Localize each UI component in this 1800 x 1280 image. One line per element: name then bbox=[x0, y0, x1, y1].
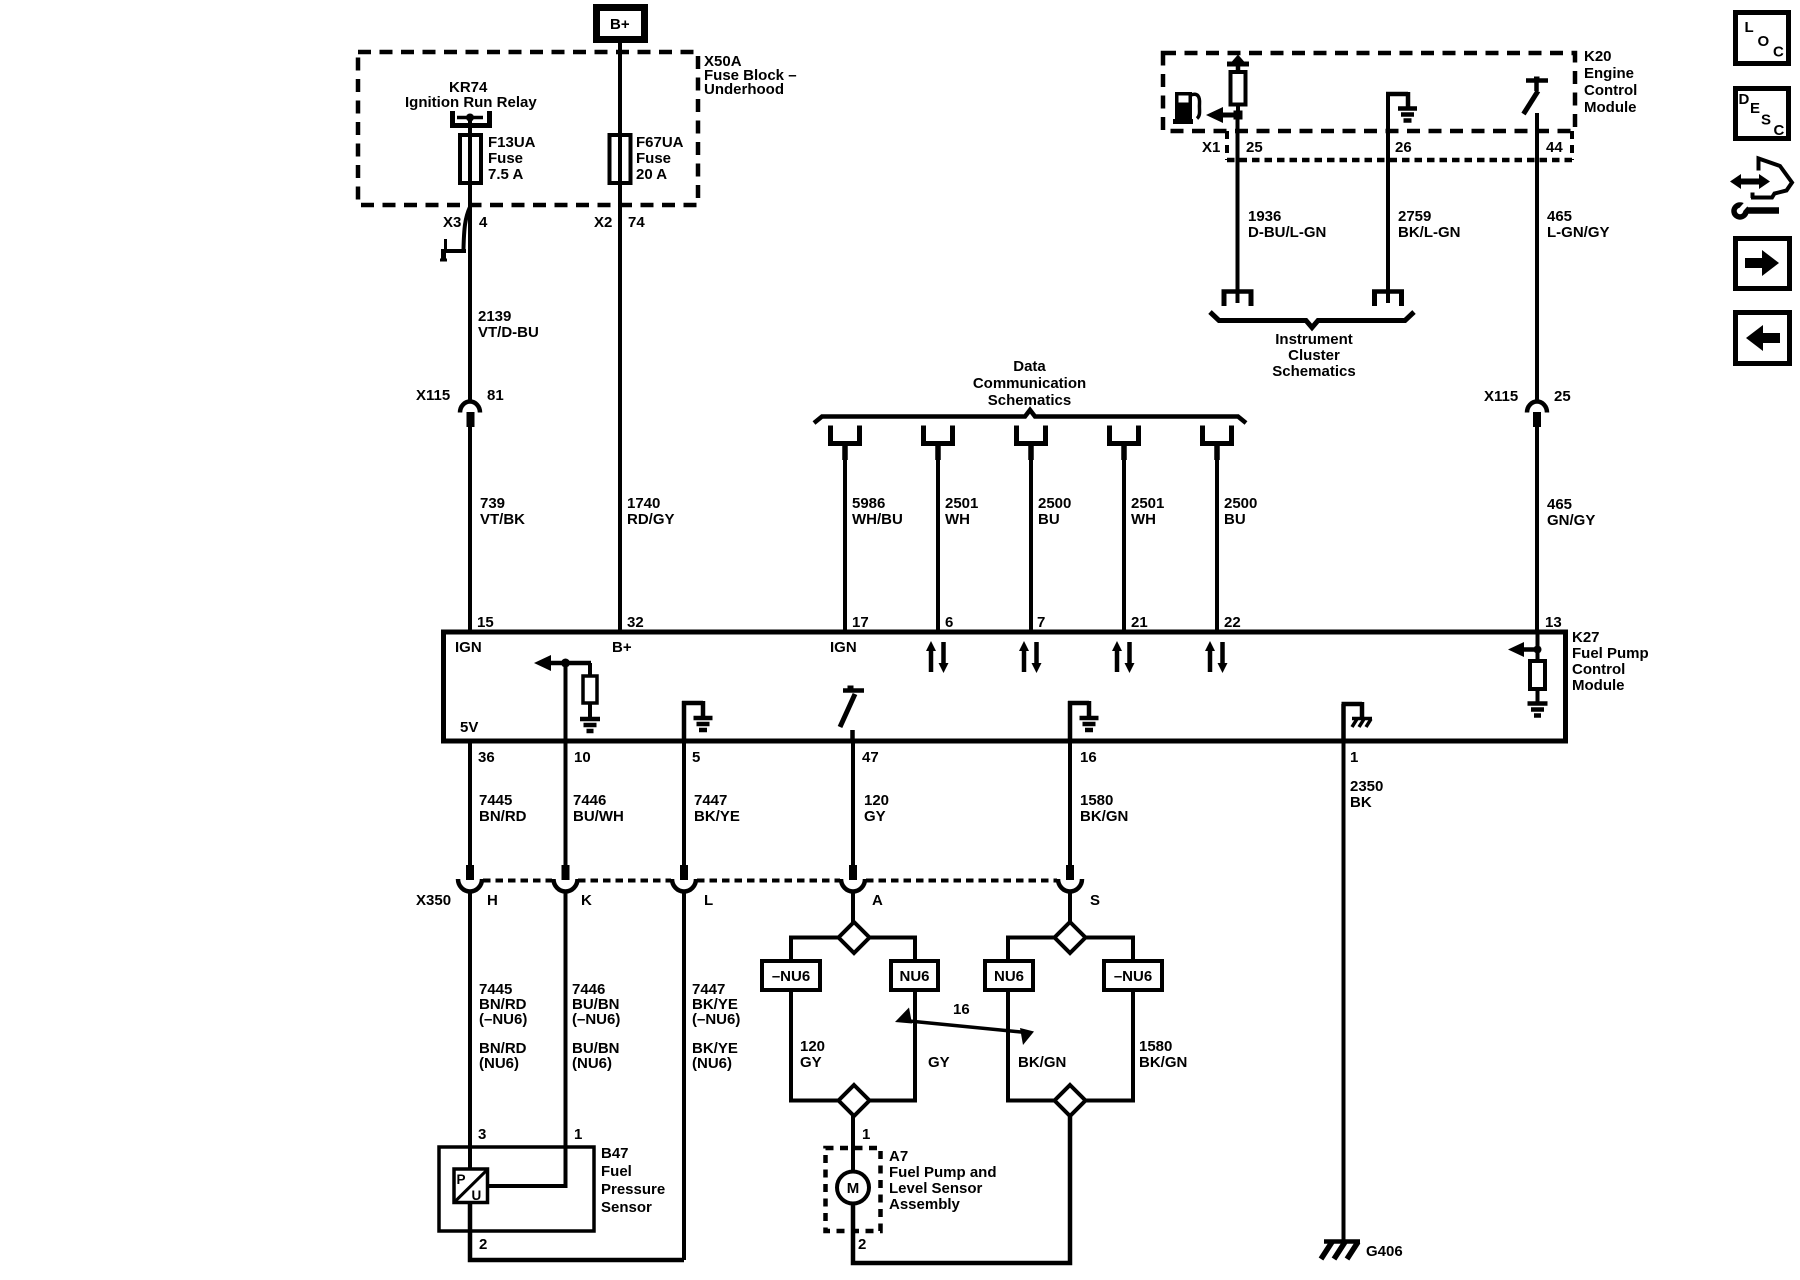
svg-text:(NU6): (NU6) bbox=[692, 1055, 732, 1072]
terminal data wire pin 17 bbox=[831, 426, 860, 461]
fuse F13UA 7.5A bbox=[460, 134, 536, 183]
svg-text:F67UA: F67UA bbox=[636, 134, 684, 151]
svg-text:(NU6): (NU6) bbox=[572, 1055, 612, 1072]
svg-text:Instrument: Instrument bbox=[1275, 331, 1353, 348]
svg-text:Data: Data bbox=[1013, 358, 1046, 375]
svg-text:L: L bbox=[1745, 19, 1754, 36]
svg-text:Module: Module bbox=[1584, 99, 1637, 116]
svg-text:S: S bbox=[1090, 892, 1100, 909]
svg-text:Cluster: Cluster bbox=[1288, 347, 1340, 364]
circuit 16 pointer arrow bbox=[895, 1001, 1034, 1045]
relay KR74 Ignition Run Relay bbox=[405, 79, 537, 135]
pin 2 label B47 bbox=[479, 1236, 487, 1253]
svg-text:2759: 2759 bbox=[1398, 208, 1431, 225]
svg-text:BK/L-GN: BK/L-GN bbox=[1398, 224, 1461, 241]
svg-text:GY: GY bbox=[928, 1054, 950, 1071]
svg-text:5986: 5986 bbox=[852, 495, 885, 512]
terminal data wire pin 21 bbox=[1110, 426, 1139, 461]
svg-text:X115: X115 bbox=[416, 387, 450, 404]
svg-text:L: L bbox=[704, 892, 713, 909]
svg-text:Underhood: Underhood bbox=[704, 81, 784, 98]
connector X350 dashed line bbox=[416, 881, 1057, 910]
brace data communication bbox=[814, 410, 1246, 423]
label K27 Fuel Pump Control Module bbox=[1572, 629, 1649, 694]
svg-text:Fuse: Fuse bbox=[636, 150, 671, 167]
splice diamond bottom group 1 bbox=[839, 1085, 870, 1116]
switch in K20 pin 44 bbox=[1524, 77, 1549, 115]
battery terminal B+ bbox=[597, 8, 645, 40]
pin numbers on K27 top bbox=[477, 614, 1562, 631]
svg-text:465: 465 bbox=[1547, 496, 1572, 513]
svg-text:WH: WH bbox=[1131, 511, 1156, 528]
terminal to instrument cluster pin 26 bbox=[1372, 290, 1404, 307]
svg-text:D-BU/L-GN: D-BU/L-GN bbox=[1248, 224, 1326, 241]
branch wires group 1 bbox=[791, 938, 915, 1101]
wire 1740 RD/GY bbox=[620, 207, 675, 632]
net label B+ pin 32 bbox=[612, 639, 632, 656]
svg-text:–NU6: –NU6 bbox=[1114, 968, 1152, 985]
svg-text:IGN: IGN bbox=[830, 639, 857, 656]
svg-text:7.5 A: 7.5 A bbox=[488, 166, 523, 183]
svg-text:2500: 2500 bbox=[1224, 495, 1257, 512]
module K27 Fuel Pump Control Module box bbox=[444, 632, 1566, 741]
wire 2759 BK/L-GN pin 26 bbox=[1388, 160, 1461, 303]
svg-text:Sensor: Sensor bbox=[601, 1199, 652, 1216]
svg-text:2: 2 bbox=[858, 1236, 866, 1253]
pin numbers on K27 bottom bbox=[478, 749, 1358, 766]
brace instrument cluster bbox=[1210, 312, 1414, 328]
wire 2500 BU bbox=[1031, 452, 1071, 632]
label 120 GY left branch bbox=[800, 1038, 825, 1071]
svg-text:1936: 1936 bbox=[1248, 208, 1281, 225]
svg-text:13: 13 bbox=[1545, 614, 1562, 631]
wire 7446 BU/WH to X350 bbox=[566, 741, 624, 866]
label B47 Fuel Pressure Sensor bbox=[601, 1145, 665, 1216]
svg-text:7: 7 bbox=[1037, 614, 1045, 631]
svg-text:VT/D-BU: VT/D-BU bbox=[478, 324, 539, 341]
svg-text:5: 5 bbox=[692, 749, 700, 766]
svg-text:GY: GY bbox=[864, 808, 886, 825]
svg-text:WH/BU: WH/BU bbox=[852, 511, 903, 528]
wire 120 GY to X350 bbox=[853, 741, 889, 866]
svg-text:81: 81 bbox=[487, 387, 504, 404]
svg-text:A: A bbox=[872, 892, 883, 909]
svg-text:4: 4 bbox=[479, 214, 488, 231]
sensor B47 box bbox=[439, 1147, 594, 1231]
icon box arrow right bbox=[1736, 239, 1790, 289]
wire B47 pin 2 to L bbox=[470, 1202, 684, 1260]
option box NU6 bbox=[891, 961, 938, 990]
svg-text:C: C bbox=[1774, 122, 1785, 139]
svg-text:BK/YE: BK/YE bbox=[694, 808, 740, 825]
wire 7447 BK/YE below X350 bbox=[684, 890, 740, 1260]
svg-text:20 A: 20 A bbox=[636, 166, 667, 183]
svg-text:BU: BU bbox=[1224, 511, 1246, 528]
svg-text:7446: 7446 bbox=[573, 792, 606, 809]
svg-text:L-GN/GY: L-GN/GY bbox=[1547, 224, 1610, 241]
pin 2 label A7 bbox=[858, 1236, 866, 1253]
wire 2350 BK pin 1 bbox=[1344, 741, 1384, 1242]
svg-text:C: C bbox=[1773, 44, 1784, 61]
svg-text:739: 739 bbox=[480, 495, 505, 512]
internal ground pin 5 bbox=[682, 701, 713, 741]
connector X2 pin 74 label bbox=[594, 214, 645, 231]
svg-text:NU6: NU6 bbox=[994, 968, 1024, 985]
svg-text:X2: X2 bbox=[594, 214, 612, 231]
assembly A7 dashed box bbox=[826, 1148, 881, 1231]
wire K into B47 bbox=[487, 1147, 566, 1186]
svg-text:1: 1 bbox=[574, 1126, 582, 1143]
label X50A Fuse Block Underhood bbox=[704, 53, 797, 98]
wire pin 10 internal bbox=[564, 663, 568, 741]
wire 7446 BU/BN below X350 bbox=[566, 890, 621, 1148]
icon navigation arrows with wrench bbox=[1730, 159, 1792, 218]
svg-text:120: 120 bbox=[864, 792, 889, 809]
gauge arrow to fuel pump bbox=[1206, 107, 1243, 123]
connector X350 pin L bbox=[672, 865, 713, 909]
splice diamond top group 1 bbox=[839, 922, 870, 953]
connector X350 pin K bbox=[554, 865, 593, 909]
svg-text:BN/RD: BN/RD bbox=[479, 808, 527, 825]
svg-text:BK/GN: BK/GN bbox=[1080, 808, 1128, 825]
svg-text:3: 3 bbox=[478, 1126, 486, 1143]
svg-text:(–NU6): (–NU6) bbox=[479, 1011, 527, 1028]
wire A7 pin 2 to S branch bbox=[853, 1116, 1070, 1263]
svg-text:WH: WH bbox=[945, 511, 970, 528]
wire A to splice diamond bbox=[851, 890, 855, 924]
svg-text:Fuel Pump and: Fuel Pump and bbox=[889, 1164, 997, 1181]
svg-text:S: S bbox=[1761, 112, 1771, 129]
svg-text:10: 10 bbox=[574, 749, 591, 766]
svg-text:BU: BU bbox=[1038, 511, 1060, 528]
pressure transducer P/U element bbox=[454, 1147, 488, 1203]
splice diamond bottom group 2 bbox=[1055, 1085, 1086, 1116]
svg-text:2: 2 bbox=[479, 1236, 487, 1253]
svg-text:25: 25 bbox=[1554, 388, 1571, 405]
wire diamond to A7 pin 1 bbox=[853, 1116, 870, 1172]
svg-text:U: U bbox=[472, 1188, 482, 1203]
svg-text:Schematics: Schematics bbox=[988, 392, 1071, 409]
connector X115 pin 25 bbox=[1484, 388, 1571, 427]
svg-text:BK/GN: BK/GN bbox=[1018, 1054, 1066, 1071]
svg-text:Ignition Run Relay: Ignition Run Relay bbox=[405, 94, 537, 111]
svg-text:Assembly: Assembly bbox=[889, 1196, 961, 1213]
wire 5986 WH/BU bbox=[845, 452, 903, 632]
svg-text:2350: 2350 bbox=[1350, 778, 1383, 795]
svg-text:16: 16 bbox=[953, 1001, 970, 1018]
connector X1 strip bbox=[1202, 131, 1572, 160]
svg-text:K: K bbox=[581, 892, 592, 909]
bidirectional data arrows pin at x=1124 bbox=[1112, 641, 1135, 673]
svg-text:B+: B+ bbox=[610, 16, 630, 33]
internal resistor with ground pin 10 bbox=[534, 655, 600, 731]
label K20 Engine Control Module bbox=[1584, 48, 1637, 116]
svg-text:Control: Control bbox=[1584, 82, 1637, 99]
svg-text:Schematics: Schematics bbox=[1272, 363, 1355, 380]
terminal data wire pin 7 bbox=[1017, 426, 1046, 461]
label 1580 BK/GN right branch bbox=[1139, 1038, 1187, 1071]
svg-text:O: O bbox=[1758, 33, 1770, 50]
connector X115 pin 81 bbox=[416, 387, 504, 427]
svg-text:74: 74 bbox=[628, 214, 645, 231]
svg-text:BK: BK bbox=[1350, 794, 1372, 811]
wire S to splice diamond bbox=[1068, 890, 1072, 924]
svg-text:2501: 2501 bbox=[1131, 495, 1164, 512]
svg-text:K27: K27 bbox=[1572, 629, 1600, 646]
fuse F67UA 20A bbox=[610, 134, 684, 183]
svg-text:26: 26 bbox=[1395, 139, 1412, 156]
wire 465 GN/GY bbox=[1537, 427, 1595, 632]
connector X350 pin S bbox=[1058, 865, 1100, 909]
ground symbol in K20 pin 26 bbox=[1386, 92, 1417, 160]
pin 3 label B47 bbox=[478, 1126, 486, 1143]
wire 2139 VT/D-BU bbox=[470, 207, 539, 400]
fuel pump icon bbox=[1173, 92, 1200, 124]
label GY right branch bbox=[928, 1054, 950, 1071]
net label IGN pin 17 bbox=[830, 639, 857, 656]
bidirectional data arrows pin at x=1217 bbox=[1205, 641, 1228, 673]
svg-text:Communication: Communication bbox=[973, 375, 1086, 392]
svg-text:F13UA: F13UA bbox=[488, 134, 536, 151]
svg-text:Level Sensor: Level Sensor bbox=[889, 1180, 983, 1197]
svg-text:Fuel: Fuel bbox=[601, 1163, 632, 1180]
svg-text:1: 1 bbox=[862, 1126, 870, 1143]
wire 465 L-GN/GY pin 44 bbox=[1537, 113, 1610, 400]
terminal data wire pin 22 bbox=[1203, 426, 1232, 461]
svg-text:17: 17 bbox=[852, 614, 869, 631]
resistor in K20 fuel level sender bbox=[1227, 55, 1249, 116]
bidirectional data arrows pin at x=1031 bbox=[1019, 641, 1042, 673]
motor M fuel pump bbox=[837, 1172, 869, 1204]
option box -NU6 second bbox=[1104, 961, 1162, 990]
branch wires group 2 bbox=[1008, 938, 1133, 1101]
svg-text:H: H bbox=[487, 892, 498, 909]
svg-text:X350: X350 bbox=[416, 892, 451, 909]
svg-text:16: 16 bbox=[1080, 749, 1097, 766]
svg-text:G406: G406 bbox=[1366, 1243, 1403, 1260]
wire 1580 BK/GN to X350 bbox=[1070, 741, 1128, 866]
option box NU6 second bbox=[985, 961, 1033, 990]
bidirectional data arrows pin at x=938 bbox=[926, 641, 949, 673]
svg-text:RD/GY: RD/GY bbox=[627, 511, 675, 528]
icon box DESC bbox=[1736, 89, 1789, 140]
icon box LOC bbox=[1736, 13, 1789, 64]
svg-text:P: P bbox=[457, 1172, 466, 1187]
svg-text:21: 21 bbox=[1131, 614, 1148, 631]
option box -NU6 bbox=[762, 961, 820, 990]
wire relay to fuse F13UA bbox=[468, 130, 472, 207]
internal chassis ground pin 1 bbox=[1342, 702, 1373, 741]
svg-text:(NU6): (NU6) bbox=[479, 1055, 519, 1072]
svg-text:36: 36 bbox=[478, 749, 495, 766]
label A7 Fuel Pump and Level Sensor Assembly bbox=[889, 1148, 997, 1213]
wire 1936 D-BU/L-GN pin 25 bbox=[1238, 115, 1327, 303]
svg-text:GN/GY: GN/GY bbox=[1547, 512, 1595, 529]
connector X350 pin A bbox=[841, 865, 883, 909]
connector X350 pin H bbox=[458, 865, 498, 909]
svg-text:X3: X3 bbox=[443, 214, 461, 231]
label Data Communication Schematics bbox=[973, 358, 1086, 409]
svg-text:E: E bbox=[1750, 100, 1760, 117]
svg-text:25: 25 bbox=[1246, 139, 1263, 156]
svg-text:1580: 1580 bbox=[1080, 792, 1113, 809]
svg-text:X115: X115 bbox=[1484, 388, 1518, 405]
module K20 dashed box bbox=[1163, 53, 1575, 131]
net label IGN pin 15 bbox=[455, 639, 482, 656]
wire B+ to fuse F67UA bbox=[618, 43, 622, 207]
wire 7445 BN/RD to X350 bbox=[470, 741, 527, 866]
svg-text:22: 22 bbox=[1224, 614, 1241, 631]
svg-text:–NU6: –NU6 bbox=[772, 968, 810, 985]
svg-text:1740: 1740 bbox=[627, 495, 660, 512]
svg-text:2501: 2501 bbox=[945, 495, 978, 512]
svg-text:NU6: NU6 bbox=[899, 968, 929, 985]
internal resistor with ground pin 13 bbox=[1508, 632, 1548, 716]
svg-text:7445: 7445 bbox=[479, 792, 512, 809]
svg-text:GY: GY bbox=[800, 1054, 822, 1071]
svg-text:7447: 7447 bbox=[694, 792, 727, 809]
svg-text:2500: 2500 bbox=[1038, 495, 1071, 512]
svg-text:15: 15 bbox=[477, 614, 494, 631]
pin 1 label B47 bbox=[574, 1126, 582, 1143]
svg-text:1: 1 bbox=[1350, 749, 1358, 766]
label Instrument Cluster Schematics bbox=[1272, 331, 1355, 380]
label BK/GN left branch bbox=[1018, 1054, 1066, 1071]
wire 739 VT/BK bbox=[470, 427, 525, 632]
svg-text:1580: 1580 bbox=[1139, 1038, 1172, 1055]
svg-text:44: 44 bbox=[1546, 139, 1563, 156]
svg-text:B+: B+ bbox=[612, 639, 632, 656]
svg-text:IGN: IGN bbox=[455, 639, 482, 656]
svg-text:Fuel Pump: Fuel Pump bbox=[1572, 645, 1649, 662]
wire 2501 WH bbox=[938, 452, 978, 632]
svg-text:120: 120 bbox=[800, 1038, 825, 1055]
clip symbol at X3 bbox=[440, 207, 470, 261]
svg-text:47: 47 bbox=[862, 749, 879, 766]
ground G406 bbox=[1321, 1242, 1403, 1261]
svg-text:465: 465 bbox=[1547, 208, 1572, 225]
svg-text:B47: B47 bbox=[601, 1145, 629, 1162]
svg-text:2139: 2139 bbox=[478, 308, 511, 325]
svg-text:BK/GN: BK/GN bbox=[1139, 1054, 1187, 1071]
splice diamond top group 2 bbox=[1055, 922, 1086, 953]
svg-text:Module: Module bbox=[1572, 677, 1625, 694]
net label 5V pin 36 bbox=[460, 719, 478, 736]
wire 7447 BK/YE to X350 bbox=[684, 741, 740, 866]
connector X3 pin 4 label bbox=[443, 214, 488, 231]
terminal data wire pin 6 bbox=[924, 426, 953, 461]
fuse block X50A dashed box bbox=[358, 52, 698, 205]
svg-text:5V: 5V bbox=[460, 719, 478, 736]
wire 2500 BU bbox=[1217, 452, 1257, 632]
svg-text:Control: Control bbox=[1572, 661, 1625, 678]
svg-text:K20: K20 bbox=[1584, 48, 1612, 65]
wire 2501 WH bbox=[1124, 452, 1164, 632]
svg-text:(–NU6): (–NU6) bbox=[692, 1011, 740, 1028]
svg-text:D: D bbox=[1739, 91, 1750, 108]
icon box arrow left bbox=[1736, 313, 1790, 364]
svg-text:X1: X1 bbox=[1202, 139, 1220, 156]
svg-text:32: 32 bbox=[627, 614, 644, 631]
terminal to instrument cluster pin 25 bbox=[1222, 290, 1254, 307]
internal ground pin 16 bbox=[1068, 701, 1099, 741]
svg-text:VT/BK: VT/BK bbox=[480, 511, 525, 528]
svg-text:Fuse: Fuse bbox=[488, 150, 523, 167]
svg-text:Engine: Engine bbox=[1584, 65, 1634, 82]
svg-text:(–NU6): (–NU6) bbox=[572, 1011, 620, 1028]
svg-text:Pressure: Pressure bbox=[601, 1181, 665, 1198]
wire 7445 BN/RD below X350 bbox=[470, 890, 527, 1148]
svg-text:M: M bbox=[847, 1180, 860, 1197]
internal switch pin 47 bbox=[840, 686, 864, 742]
svg-text:BU/WH: BU/WH bbox=[573, 808, 624, 825]
svg-text:A7: A7 bbox=[889, 1148, 908, 1165]
svg-text:6: 6 bbox=[945, 614, 953, 631]
